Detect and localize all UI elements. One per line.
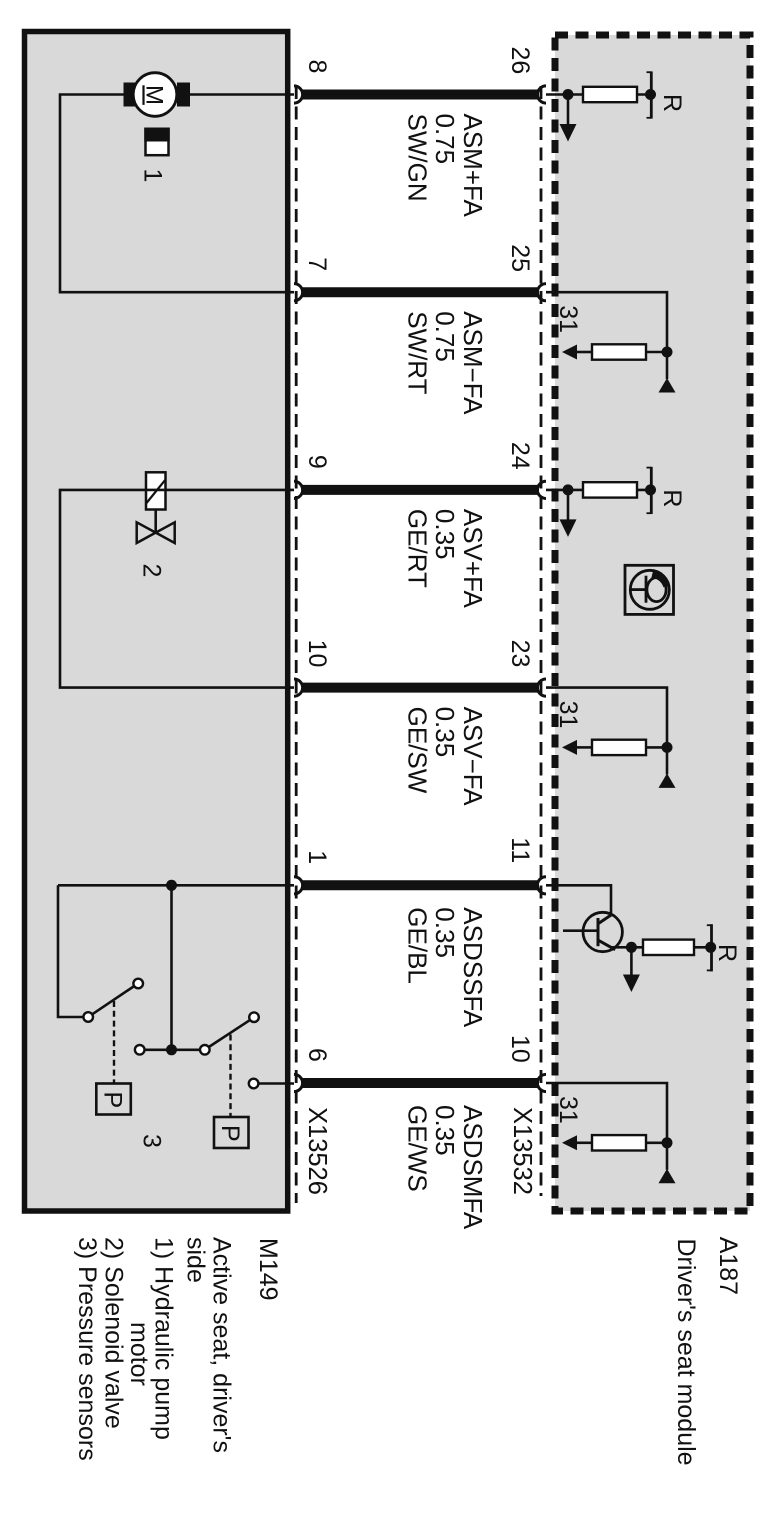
node junction ground pin25 [662,347,673,358]
svg-text:11: 11 [506,837,534,863]
motor M1 brush terminal left [124,83,137,107]
svg-text:31: 31 [554,701,582,729]
switch S2 output contact [249,1079,259,1089]
motor M1 brush terminal right [177,83,190,107]
svg-text:26: 26 [506,47,534,75]
node junction pin26 [563,89,574,100]
ground triangle pin10 [659,1143,676,1184]
node R bar pin24 [645,484,656,495]
node R bar pin11 [705,942,716,953]
svg-text:ASM+FA: ASM+FA [458,114,488,218]
svg-text:9: 9 [303,455,331,469]
svg-text:GE/SW: GE/SW [403,707,433,794]
valve body (bowtie) [137,510,175,544]
svg-text:3) Pressure sensors: 3) Pressure sensors [73,1237,101,1461]
svg-text:1: 1 [303,850,331,864]
svg-text:GE/BL: GE/BL [403,907,433,984]
connector line X13532 (dashed) [540,86,543,1196]
resistor R (pin24) [583,482,637,497]
signal arrow emitter (down) [623,947,640,992]
svg-text:SW/RT: SW/RT [403,311,433,394]
pressure sensor P1 box [96,1084,131,1115]
pressure sensor P2 box [214,1117,249,1148]
signal arrow pin24 (down) [560,490,577,537]
node junction emitter [626,942,637,953]
svg-text:GE/WS: GE/WS [403,1105,433,1192]
wire S2 to pin6 [258,1082,294,1085]
svg-text:6: 6 [303,1048,331,1062]
svg-text:23: 23 [506,640,534,668]
svg-text:P: P [99,1092,127,1109]
wire pin10 to ground 31 [546,1083,667,1143]
wire pin1 feed [58,884,294,887]
wire branch to switch S1 [58,885,84,1017]
wire arrow to resistor pin23 [577,746,592,749]
signal arrow pin26 (down) [560,95,577,142]
node junction pin1/S2 [166,880,177,891]
sensor bar symbol pin11 [707,924,712,971]
svg-text:ASV−FA: ASV−FA [458,707,488,807]
wire ASDSMFA 0.35 GE/WS pins 6/10 [294,1074,546,1091]
wire pin24 pull-up network [546,489,651,492]
actuator link S2 (dashed) [229,1035,231,1118]
wire resistor to node pin10 [646,1142,667,1145]
svg-text:0.75: 0.75 [430,114,460,165]
wire pin26 pull-up network [546,93,651,96]
wire S2 contact bar [145,1049,201,1052]
svg-text:8: 8 [303,60,331,74]
terminal arrow 31 (pin10) [562,1135,577,1150]
svg-text:31: 31 [554,305,582,333]
svg-text:P: P [216,1125,244,1142]
switch S1 throw contact [133,979,143,989]
switch S2 blade [209,1020,251,1047]
hydraulic pump motor M (1) [133,73,177,117]
wire arrow to resistor pin10 [577,1142,592,1145]
svg-text:7: 7 [303,257,331,271]
eccentric pump symbol (A187 internal) [625,565,674,614]
switch S1 pivot contact [83,1012,93,1022]
transistor Q1 [563,912,622,951]
svg-text:0.35: 0.35 [430,707,460,758]
wire pin25 to ground 31 [546,292,667,352]
svg-text:X13526: X13526 [303,1107,331,1195]
sensor bar symbol pin24 [647,467,652,514]
svg-text:X13532: X13532 [508,1107,536,1195]
switch S2 contact left [135,1045,145,1055]
svg-text:motor: motor [125,1322,153,1386]
svg-text:25: 25 [506,244,534,272]
wire ASM+FA 0.75 SW/GN pins 8/26 [294,86,546,103]
ground triangle pin25 [659,352,676,393]
control module box A187 Driver seat module (dashed) [555,35,750,1211]
resistor R (emitter) [643,940,694,955]
switch S2 throw contact open [249,1012,259,1022]
resistor (pin25 ground path) [592,344,646,359]
switch S2 pivot contact [200,1045,210,1055]
wire pin23 to ground 31 [546,688,667,748]
wire ASV−FA 0.35 GE/SW pins 10/23 [294,679,546,696]
svg-text:R: R [658,94,686,112]
svg-text:ASM−FA: ASM−FA [458,311,488,415]
resistor R (pin26) [583,87,637,102]
wire resistor to node pin23 [646,746,667,749]
sensor bar symbol pin26 [647,71,652,118]
wire pin11 to transistor collector [546,885,611,916]
node junction pin24 [563,484,574,495]
connector line X13526 (dashed) [295,86,298,1203]
wire emitter to resistor [610,946,643,949]
svg-text:2) Solenoid valve: 2) Solenoid valve [100,1237,128,1429]
svg-text:Active seat, driver's: Active seat, driver's [208,1237,236,1453]
actuator link S1 (dashed) [113,1001,115,1083]
svg-text:SW/GN: SW/GN [403,114,433,202]
svg-text:R: R [713,944,741,962]
wire motor loop pin8 to pin7 [60,95,294,293]
svg-text:0.35: 0.35 [430,1105,460,1156]
svg-text:R: R [658,489,686,507]
wire valve loop pin9 to pin10 [60,490,294,688]
svg-text:GE/RT: GE/RT [402,509,432,588]
wire branch to switch S2 [170,885,173,1050]
node junction S2 bar [166,1044,177,1055]
svg-text:3: 3 [138,1134,166,1148]
resistor (pin23 ground path) [592,740,646,755]
svg-text:ASDSSFA: ASDSSFA [458,907,488,1028]
wire resistor to node pin25 [646,351,667,354]
svg-text:0.35: 0.35 [430,509,460,560]
svg-text:A187: A187 [714,1237,742,1295]
svg-text:10: 10 [506,1035,534,1063]
solenoid valve coil (2) [146,472,166,509]
svg-text:side: side [182,1237,210,1283]
svg-text:1: 1 [139,169,167,183]
svg-text:10: 10 [303,640,331,668]
svg-text:ASDSMFA: ASDSMFA [458,1105,488,1230]
wire resistor to bar [694,946,711,949]
terminal arrow 31 (pin25) [562,345,577,360]
terminal arrow 31 (pin23) [562,740,577,755]
svg-text:2: 2 [138,564,166,578]
resistor (pin10 ground path) [592,1135,646,1150]
svg-text:0.75: 0.75 [430,311,460,362]
svg-text:M149: M149 [254,1238,282,1301]
wire ASM−FA 0.75 SW/RT pins 7/25 [294,284,546,301]
node R bar pin26 [645,89,656,100]
component box M149 Active seat driver side [25,32,288,1212]
ground triangle pin23 [659,747,676,788]
wire ASDSSFA 0.35 GE/BL pins 1/11 [294,877,546,894]
wire ASV+FA 0.35 GE/RT pins 9/24 [294,481,546,498]
wire arrow to resistor pin25 [577,351,592,354]
svg-text:Driver's seat module: Driver's seat module [672,1239,700,1466]
svg-text:0.35: 0.35 [430,907,460,958]
node junction ground pin10 [662,1137,673,1148]
svg-text:24: 24 [506,442,534,470]
switch S1 blade [92,986,134,1014]
svg-text:31: 31 [554,1096,582,1124]
pump symbol (half filled box) [144,128,169,156]
node junction ground pin23 [662,742,673,753]
svg-text:ASV+FA: ASV+FA [458,509,488,609]
